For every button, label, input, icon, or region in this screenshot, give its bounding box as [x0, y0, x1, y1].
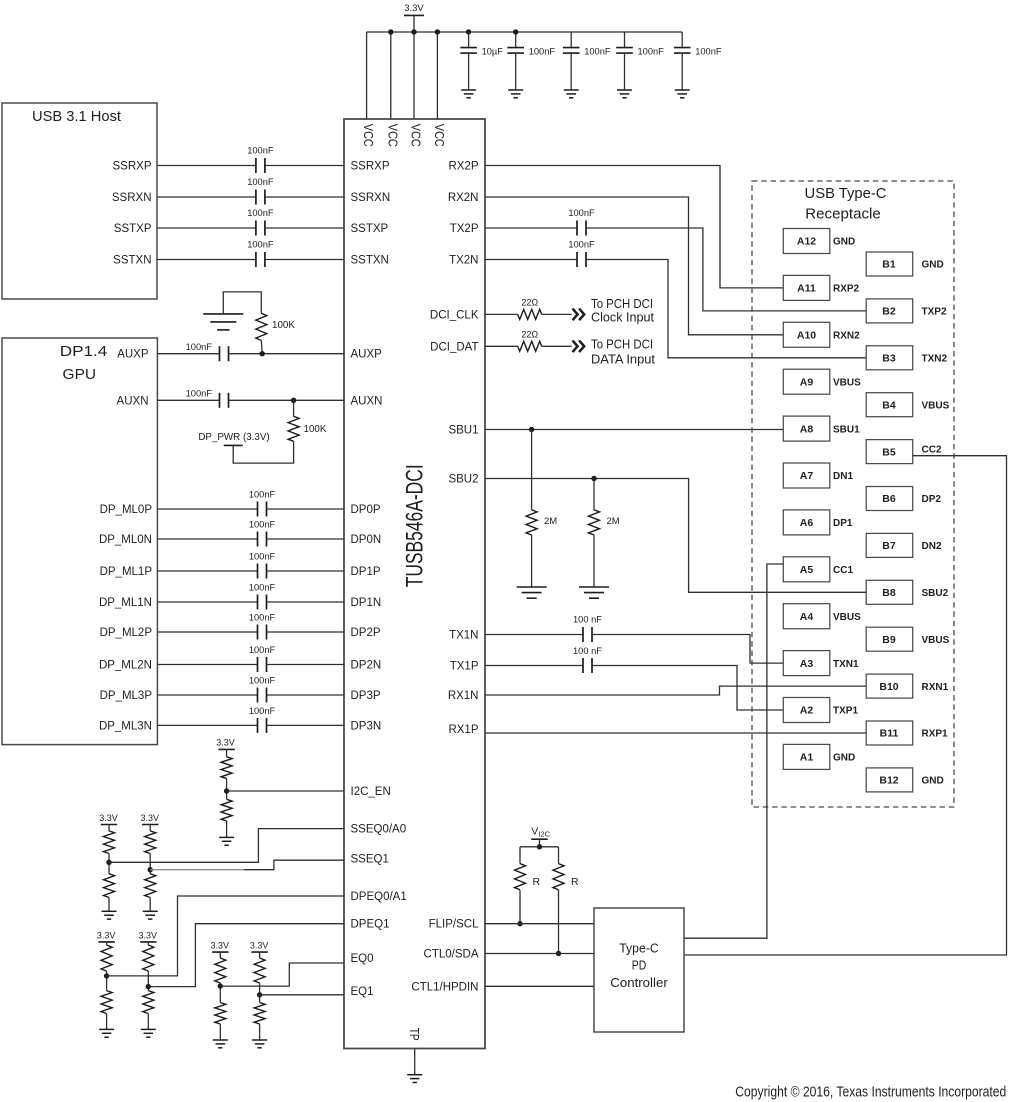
resistor lower divider EQ1 — [254, 1003, 265, 1025]
resistor 100K AUXN pullup — [288, 416, 299, 441]
wire SBU1 node to resistor 2M — [531, 430, 533, 510]
svg-text:3.3V: 3.3V — [99, 813, 118, 823]
svg-text:100nF: 100nF — [186, 389, 213, 399]
svg-text:TP: TP — [407, 1028, 422, 1041]
wire DCI_DAT to resistor — [485, 345, 518, 347]
wire to I2C_EN node — [226, 779, 228, 800]
ground for C3 — [564, 89, 579, 91]
svg-text:B2: B2 — [882, 306, 896, 318]
svg-text:AUXN: AUXN — [351, 395, 383, 407]
svg-text:100K: 100K — [272, 320, 295, 331]
capacitor 100nF series AUXP — [219, 346, 221, 361]
node EQ0 divider — [218, 983, 223, 988]
capacitor 100nF series SSTXP — [255, 221, 257, 236]
wire to node — [108, 854, 110, 874]
wire VCC pin 1 — [366, 32, 368, 119]
wire SSRXP cap to U1 — [265, 165, 344, 167]
node SSEQ0 divider — [106, 860, 111, 865]
svg-text:GND: GND — [833, 753, 855, 764]
wire DCI_CLK to resistor — [485, 313, 518, 315]
svg-text:B7: B7 — [882, 540, 896, 552]
junction node AUXN — [291, 398, 296, 403]
wire DP_ML2N GPU to cap — [157, 664, 257, 666]
svg-text:100nF: 100nF — [249, 613, 276, 623]
svg-text:SSTXP: SSTXP — [351, 223, 389, 235]
svg-text:B9: B9 — [882, 634, 896, 646]
resistor 22ohm DCI_CLK — [518, 309, 542, 319]
junction V_I2C — [537, 844, 542, 849]
svg-text:R: R — [533, 876, 541, 888]
svg-text:100nF: 100nF — [249, 645, 276, 655]
svg-text:SBU2: SBU2 — [448, 474, 478, 486]
svg-text:A8: A8 — [800, 423, 814, 435]
wire SSTXN cap to U1 — [265, 259, 344, 261]
pin B9 box — [866, 627, 913, 651]
wire resistor to ground — [106, 1014, 108, 1030]
wire SSEQ0/A0 route — [109, 829, 344, 863]
svg-text:A10: A10 — [797, 330, 816, 342]
ground divider SSEQ0 — [102, 910, 117, 912]
svg-text:B11: B11 — [880, 728, 899, 740]
wire resistor to DP_PWR supply — [233, 441, 293, 463]
resistor lower divider SSEQ0 — [104, 874, 115, 898]
wire DP_ML3P GPU to cap — [157, 694, 257, 696]
wire EQ0 route — [220, 963, 344, 986]
svg-text:B4: B4 — [882, 399, 896, 411]
off-page arrow DCI_DAT — [573, 341, 585, 353]
svg-text:Receptacle: Receptacle — [805, 206, 881, 223]
svg-text:USB 3.1 Host: USB 3.1 Host — [32, 108, 122, 125]
svg-text:USB Type-C: USB Type-C — [805, 185, 887, 202]
svg-text:GPU: GPU — [63, 366, 97, 383]
wire resistor to ground — [259, 1024, 261, 1040]
svg-text:DCI_DAT: DCI_DAT — [430, 341, 478, 353]
pin B4 box — [866, 393, 913, 417]
ground divider DPEQ1 — [141, 1028, 156, 1030]
wire CC1 A5 to PD controller — [684, 564, 783, 938]
capacitor 100nF series DP_ML1N — [257, 595, 259, 610]
junction on 3.3V rail — [388, 29, 393, 34]
svg-text:FLIP/SCL: FLIP/SCL — [429, 919, 479, 931]
svg-text:GND: GND — [833, 237, 855, 248]
svg-text:TXP1: TXP1 — [833, 706, 858, 717]
junction node SBU2 — [591, 476, 596, 481]
svg-text:2M: 2M — [607, 516, 620, 527]
svg-text:PD: PD — [632, 958, 647, 973]
capacitor 100nF series TX1N — [582, 627, 584, 642]
svg-text:DP_ML1P: DP_ML1P — [100, 566, 153, 578]
svg-text:100nF: 100nF — [584, 47, 611, 57]
resistor upper divider EQ0 — [215, 958, 226, 983]
wire DP_ML3P cap to U1 DP3P — [267, 694, 345, 696]
wire EQ1 route — [260, 994, 344, 996]
resistor upper divider DPEQ0 — [101, 945, 112, 971]
pin A5 box — [783, 557, 830, 582]
svg-text:3.3V: 3.3V — [211, 941, 230, 951]
svg-text:DP_ML1N: DP_ML1N — [99, 597, 152, 609]
svg-text:A2: A2 — [800, 705, 814, 717]
capacitor 100nF series DP_ML1P — [257, 564, 259, 579]
resistor pulldown I2C_EN — [221, 799, 232, 821]
wire DP_ML2N cap to U1 DP2N — [267, 664, 345, 666]
wire DP_ML3N cap to U1 DP3N — [267, 724, 345, 726]
svg-text:TX1N: TX1N — [449, 630, 478, 642]
svg-text:DP_ML2N: DP_ML2N — [99, 660, 152, 672]
svg-text:DP_ML2P: DP_ML2P — [100, 627, 153, 639]
svg-text:DP2P: DP2P — [351, 627, 381, 639]
svg-text:VBUS: VBUS — [922, 400, 950, 411]
svg-text:R: R — [571, 876, 579, 888]
wire resistor to ground — [108, 898, 110, 912]
wire resistor to AUXP node — [260, 340, 263, 353]
wire DP_ML0P GPU to cap — [157, 508, 257, 510]
svg-text:TXP2: TXP2 — [922, 307, 947, 318]
svg-text:B1: B1 — [882, 259, 896, 271]
pin B3 box — [866, 346, 913, 370]
pin A6 box — [783, 510, 830, 535]
wire AUXN node down to resistor — [293, 400, 295, 416]
svg-text:100nF: 100nF — [568, 240, 595, 250]
wire SSEQ1 gray segment — [150, 869, 244, 871]
resistor 100K AUXP pulldown — [256, 313, 267, 340]
svg-text:A12: A12 — [797, 236, 816, 248]
svg-text:RXP1: RXP1 — [922, 729, 949, 740]
svg-text:AUXP: AUXP — [117, 349, 149, 361]
wire CC2 B5 to PD controller — [684, 456, 1007, 955]
pin B6 box — [866, 487, 913, 511]
svg-text:TXN1: TXN1 — [833, 659, 859, 670]
wire resistor to arrow — [542, 345, 572, 347]
ground divider DPEQ0 — [99, 1028, 114, 1030]
capacitor C3 100nF bypass — [570, 32, 572, 48]
wire SBU2 node to resistor 2M — [593, 479, 595, 510]
svg-text:DPEQ1: DPEQ1 — [351, 919, 390, 931]
svg-text:SBU1: SBU1 — [833, 424, 860, 435]
svg-text:A5: A5 — [800, 564, 814, 576]
pin B7 box — [866, 533, 913, 557]
wire DP_ML1N GPU to cap — [157, 601, 257, 603]
capacitor 100nF series DP_ML2N — [257, 657, 259, 672]
svg-text:AUXP: AUXP — [351, 349, 383, 361]
svg-text:100K: 100K — [304, 424, 327, 435]
svg-text:DP1.4: DP1.4 — [60, 343, 108, 360]
svg-text:100nF: 100nF — [247, 146, 274, 156]
svg-text:DP3N: DP3N — [351, 720, 382, 732]
ground SBU1 2M — [517, 586, 547, 588]
block USB Type-C Receptacle dashed box — [752, 181, 954, 807]
wire rail to resistor R2 — [558, 847, 560, 864]
svg-text:GND: GND — [922, 776, 944, 787]
capacitor 100nF series TX1P — [582, 658, 584, 673]
svg-text:B5: B5 — [882, 446, 896, 458]
wire resistor to ground — [149, 898, 151, 912]
pin A9 box — [783, 369, 830, 394]
ground divider SSEQ1 — [143, 910, 158, 912]
wire DP_ML0P cap to U1 DP0P — [267, 508, 345, 510]
ground for C2 — [508, 89, 523, 91]
pin B1 box — [866, 252, 913, 276]
wire ground to resistor 100K AUXP — [223, 292, 261, 314]
wire SSRXN host to cap — [157, 196, 256, 198]
svg-text:DN2: DN2 — [922, 541, 942, 552]
node SSEQ1 divider — [148, 867, 153, 872]
wire SSTXP host to cap — [157, 227, 256, 229]
ground for C5 — [675, 89, 690, 91]
capacitor 100nF series DP_ML0P — [257, 502, 259, 517]
wire SSTXN host to cap — [157, 259, 256, 261]
capacitor 100nF series DP_ML3P — [257, 688, 259, 703]
wire resistor to CTL0/SDA — [558, 890, 560, 954]
wire resistor to ground — [219, 1024, 221, 1040]
pin A7 box — [783, 463, 830, 488]
svg-text:B10: B10 — [879, 681, 898, 693]
svg-text:DP1P: DP1P — [351, 566, 381, 578]
wire RX1N to B10 — [485, 686, 867, 695]
power net DP_PWR (3.3V) supply symbol — [224, 444, 243, 446]
svg-text:TX1P: TX1P — [450, 661, 479, 673]
wire DP_ML0N GPU to cap — [157, 538, 257, 540]
svg-text:100nF: 100nF — [247, 208, 274, 218]
svg-text:DP_PWR (3.3V): DP_PWR (3.3V) — [198, 432, 269, 443]
wire TX2P to cap — [485, 227, 577, 229]
wire VCC pin 4 — [436, 32, 438, 119]
ground TP — [407, 1074, 422, 1076]
block USB 3.1 Host box — [2, 103, 157, 299]
svg-text:100nF: 100nF — [249, 676, 276, 686]
svg-text:A3: A3 — [800, 658, 814, 670]
svg-text:B3: B3 — [882, 353, 896, 365]
svg-text:3.3V: 3.3V — [404, 3, 424, 14]
junction node I2C_EN — [224, 788, 229, 793]
svg-text:VCC: VCC — [432, 124, 447, 147]
junction FLIP/SCL — [517, 921, 522, 926]
svg-text:SSRXP: SSRXP — [351, 161, 390, 173]
resistor R pullup FLIP/SCL — [515, 864, 526, 890]
wire VCC pin 3 — [413, 32, 415, 119]
wire DP_ML0N cap to U1 DP0N — [267, 538, 345, 540]
svg-text:Controller: Controller — [610, 975, 668, 990]
capacitor C2 100nF bypass — [515, 32, 517, 48]
capacitor 100nF series SSRXN — [255, 190, 257, 205]
svg-text:100 nF: 100 nF — [573, 615, 602, 625]
svg-text:A1: A1 — [800, 752, 814, 764]
wire to node — [219, 983, 221, 1003]
svg-text:VCC: VCC — [385, 124, 400, 147]
wire DP_ML3N GPU to cap — [157, 724, 257, 726]
wire resistor to ground — [531, 535, 533, 587]
svg-text:SBU2: SBU2 — [922, 588, 949, 599]
ground for AUXP pulldown — [203, 313, 243, 315]
svg-text:DATA Input: DATA Input — [591, 352, 655, 367]
resistor upper divider DPEQ1 — [143, 945, 154, 971]
block DP1.4 GPU box — [2, 338, 157, 745]
wire TX1P to cap — [485, 665, 583, 667]
svg-text:CTL1/HPDIN: CTL1/HPDIN — [411, 981, 478, 993]
svg-text:TUSB546A-DCI: TUSB546A-DCI — [402, 464, 429, 587]
wire TX1N to cap — [485, 634, 583, 636]
svg-text:To PCH DCI: To PCH DCI — [591, 336, 653, 351]
svg-text:Clock Input: Clock Input — [591, 310, 654, 325]
svg-text:SSTXN: SSTXN — [113, 255, 151, 267]
pin A1 box — [783, 744, 830, 769]
svg-text:B6: B6 — [882, 493, 896, 505]
svg-text:10µF: 10µF — [482, 47, 504, 57]
ground for I2C_EN divider — [219, 836, 234, 838]
wire SSRXN cap to U1 — [265, 196, 344, 198]
capacitor C1 10µF bypass — [468, 32, 470, 48]
pin B8 box — [866, 580, 913, 604]
capacitor C5 100nF bypass — [681, 32, 683, 48]
wire to node — [259, 983, 261, 1003]
svg-text:DP_ML0N: DP_ML0N — [99, 534, 152, 546]
svg-text:RX2N: RX2N — [448, 192, 479, 204]
capacitor C4 100nF bypass — [624, 32, 626, 48]
wire resistor to FLIP/SCL — [519, 890, 521, 924]
svg-text:SSRXN: SSRXN — [112, 192, 152, 204]
svg-text:VBUS: VBUS — [833, 377, 861, 388]
svg-text:DPEQ0/A1: DPEQ0/A1 — [351, 891, 407, 903]
svg-text:100nF: 100nF — [247, 240, 274, 250]
wire resistor to arrow — [542, 313, 572, 315]
svg-text:CC1: CC1 — [833, 565, 853, 576]
pin B5 box — [866, 440, 913, 464]
svg-text:RX1P: RX1P — [448, 724, 478, 736]
wire DPEQ1 route — [148, 924, 344, 987]
svg-text:100 nF: 100 nF — [573, 646, 602, 656]
resistor lower divider SSEQ1 — [145, 874, 156, 898]
svg-text:DN1: DN1 — [833, 471, 853, 482]
wire SSRXP host to cap — [157, 165, 256, 167]
capacitor 100nF series SSRXP — [255, 158, 257, 173]
junction on 3.3V rail — [411, 29, 416, 34]
svg-text:DP2: DP2 — [922, 494, 942, 505]
ground divider EQ0 — [213, 1039, 228, 1041]
node DPEQ0 divider — [104, 973, 109, 978]
pin A2 box — [783, 698, 830, 723]
ground for C4 — [617, 89, 632, 91]
junction on 3.3V rail — [466, 29, 471, 34]
wire CTL0/SDA to PD controller — [485, 953, 594, 955]
junction node AUXP — [260, 351, 265, 356]
wire to node — [149, 854, 151, 874]
resistor lower divider EQ0 — [215, 1003, 226, 1025]
pin A3 box — [783, 651, 830, 676]
wire TX1P cap to A2 — [592, 666, 783, 711]
wire TP to ground — [414, 1049, 416, 1075]
wire rail to resistor R1 — [519, 847, 521, 864]
ground for C1 — [461, 89, 476, 91]
wire FLIP/SCL to PD controller — [485, 923, 594, 925]
pin B12 box — [866, 768, 913, 792]
node DPEQ1 divider — [146, 984, 151, 989]
svg-text:A4: A4 — [800, 611, 814, 623]
resistor upper divider SSEQ0 — [104, 831, 115, 854]
capacitor 100nF series DP_ML2P — [257, 625, 259, 640]
wire to node — [147, 971, 149, 991]
svg-text:B8: B8 — [882, 587, 896, 599]
svg-text:CC2: CC2 — [922, 444, 942, 455]
pin A4 box — [783, 604, 830, 629]
svg-text:100nF: 100nF — [249, 552, 276, 562]
wire resistor to ground — [226, 821, 228, 837]
wire AUXN cap to U1 — [229, 399, 345, 401]
block Type-C PD Controller box — [594, 908, 684, 1032]
wire TX2P cap to B2 — [586, 228, 867, 311]
svg-text:SSEQ0/A0: SSEQ0/A0 — [351, 824, 407, 836]
svg-text:RX1N: RX1N — [448, 690, 479, 702]
svg-text:SSTXP: SSTXP — [114, 223, 152, 235]
wire DP_ML2P GPU to cap — [157, 631, 257, 633]
wire AUXN GPU to cap — [157, 399, 219, 401]
svg-text:EQ1: EQ1 — [351, 986, 374, 998]
junction on 3.3V rail — [435, 29, 440, 34]
wire DP_ML1P GPU to cap — [157, 570, 257, 572]
svg-text:VCC: VCC — [361, 124, 376, 147]
svg-text:100nF: 100nF — [249, 490, 276, 500]
wire SBU2 to B8 — [485, 479, 867, 593]
svg-text:DP_ML3P: DP_ML3P — [100, 690, 153, 702]
svg-text:DP1: DP1 — [833, 518, 853, 529]
capacitor 100nF series SSTXN — [255, 252, 257, 267]
wire TX1N cap to A3 — [592, 635, 783, 664]
svg-text:3.3V: 3.3V — [140, 813, 159, 823]
wire DPEQ0/A1 route — [107, 896, 344, 976]
wire 3.3V rail — [367, 31, 683, 33]
svg-text:SSRXP: SSRXP — [113, 161, 152, 173]
svg-text:DP0P: DP0P — [351, 504, 381, 516]
resistor R pullup CTL0/SDA — [553, 864, 564, 890]
wire resistor to ground — [593, 535, 595, 587]
wire I2C_EN node to U1 — [227, 790, 344, 792]
resistor 22ohm DCI_DAT — [518, 341, 542, 351]
svg-text:3.3V: 3.3V — [216, 737, 235, 747]
svg-text:VCC: VCC — [409, 124, 424, 147]
wire AUXP cap to U1 — [229, 353, 345, 355]
svg-text:100nF: 100nF — [249, 520, 276, 530]
wire DP_ML1P cap to U1 DP1P — [267, 570, 345, 572]
IC U1 TUSB546A-DCI outline — [344, 119, 485, 1049]
pin B11 box — [866, 721, 913, 745]
svg-text:A6: A6 — [800, 517, 814, 529]
resistor 2M SBU1 — [526, 510, 537, 535]
node EQ1 divider — [257, 992, 262, 997]
junction node SBU1 — [529, 427, 534, 432]
svg-text:100nF: 100nF — [249, 706, 276, 716]
resistor pullup I2C_EN — [221, 757, 232, 779]
capacitor 100nF series TX2P — [576, 221, 578, 236]
svg-text:2M: 2M — [544, 516, 557, 527]
junction CTL0/SDA — [556, 951, 561, 956]
svg-text:TX2P: TX2P — [450, 223, 479, 235]
svg-text:TX2N: TX2N — [449, 255, 478, 267]
wire SSEQ1 route — [244, 860, 344, 870]
svg-text:DP_ML0P: DP_ML0P — [100, 504, 153, 516]
svg-text:3.3V: 3.3V — [97, 931, 116, 941]
svg-text:Type-C: Type-C — [619, 941, 659, 956]
wire SSTXP cap to U1 — [265, 227, 344, 229]
wire V_I2C rail — [520, 846, 559, 848]
svg-text:A7: A7 — [800, 470, 814, 482]
capacitor 100nF series TX2N — [576, 252, 578, 267]
ground SBU2 2M — [579, 586, 609, 588]
pin A8 box — [783, 416, 830, 441]
capacitor 100nF series DP_ML0N — [257, 532, 259, 547]
ground divider EQ1 — [252, 1039, 267, 1041]
svg-text:DCI_CLK: DCI_CLK — [430, 309, 479, 321]
pin A10 box — [783, 322, 830, 347]
svg-text:3.3V: 3.3V — [139, 931, 158, 941]
svg-text:100nF: 100nF — [186, 342, 213, 352]
